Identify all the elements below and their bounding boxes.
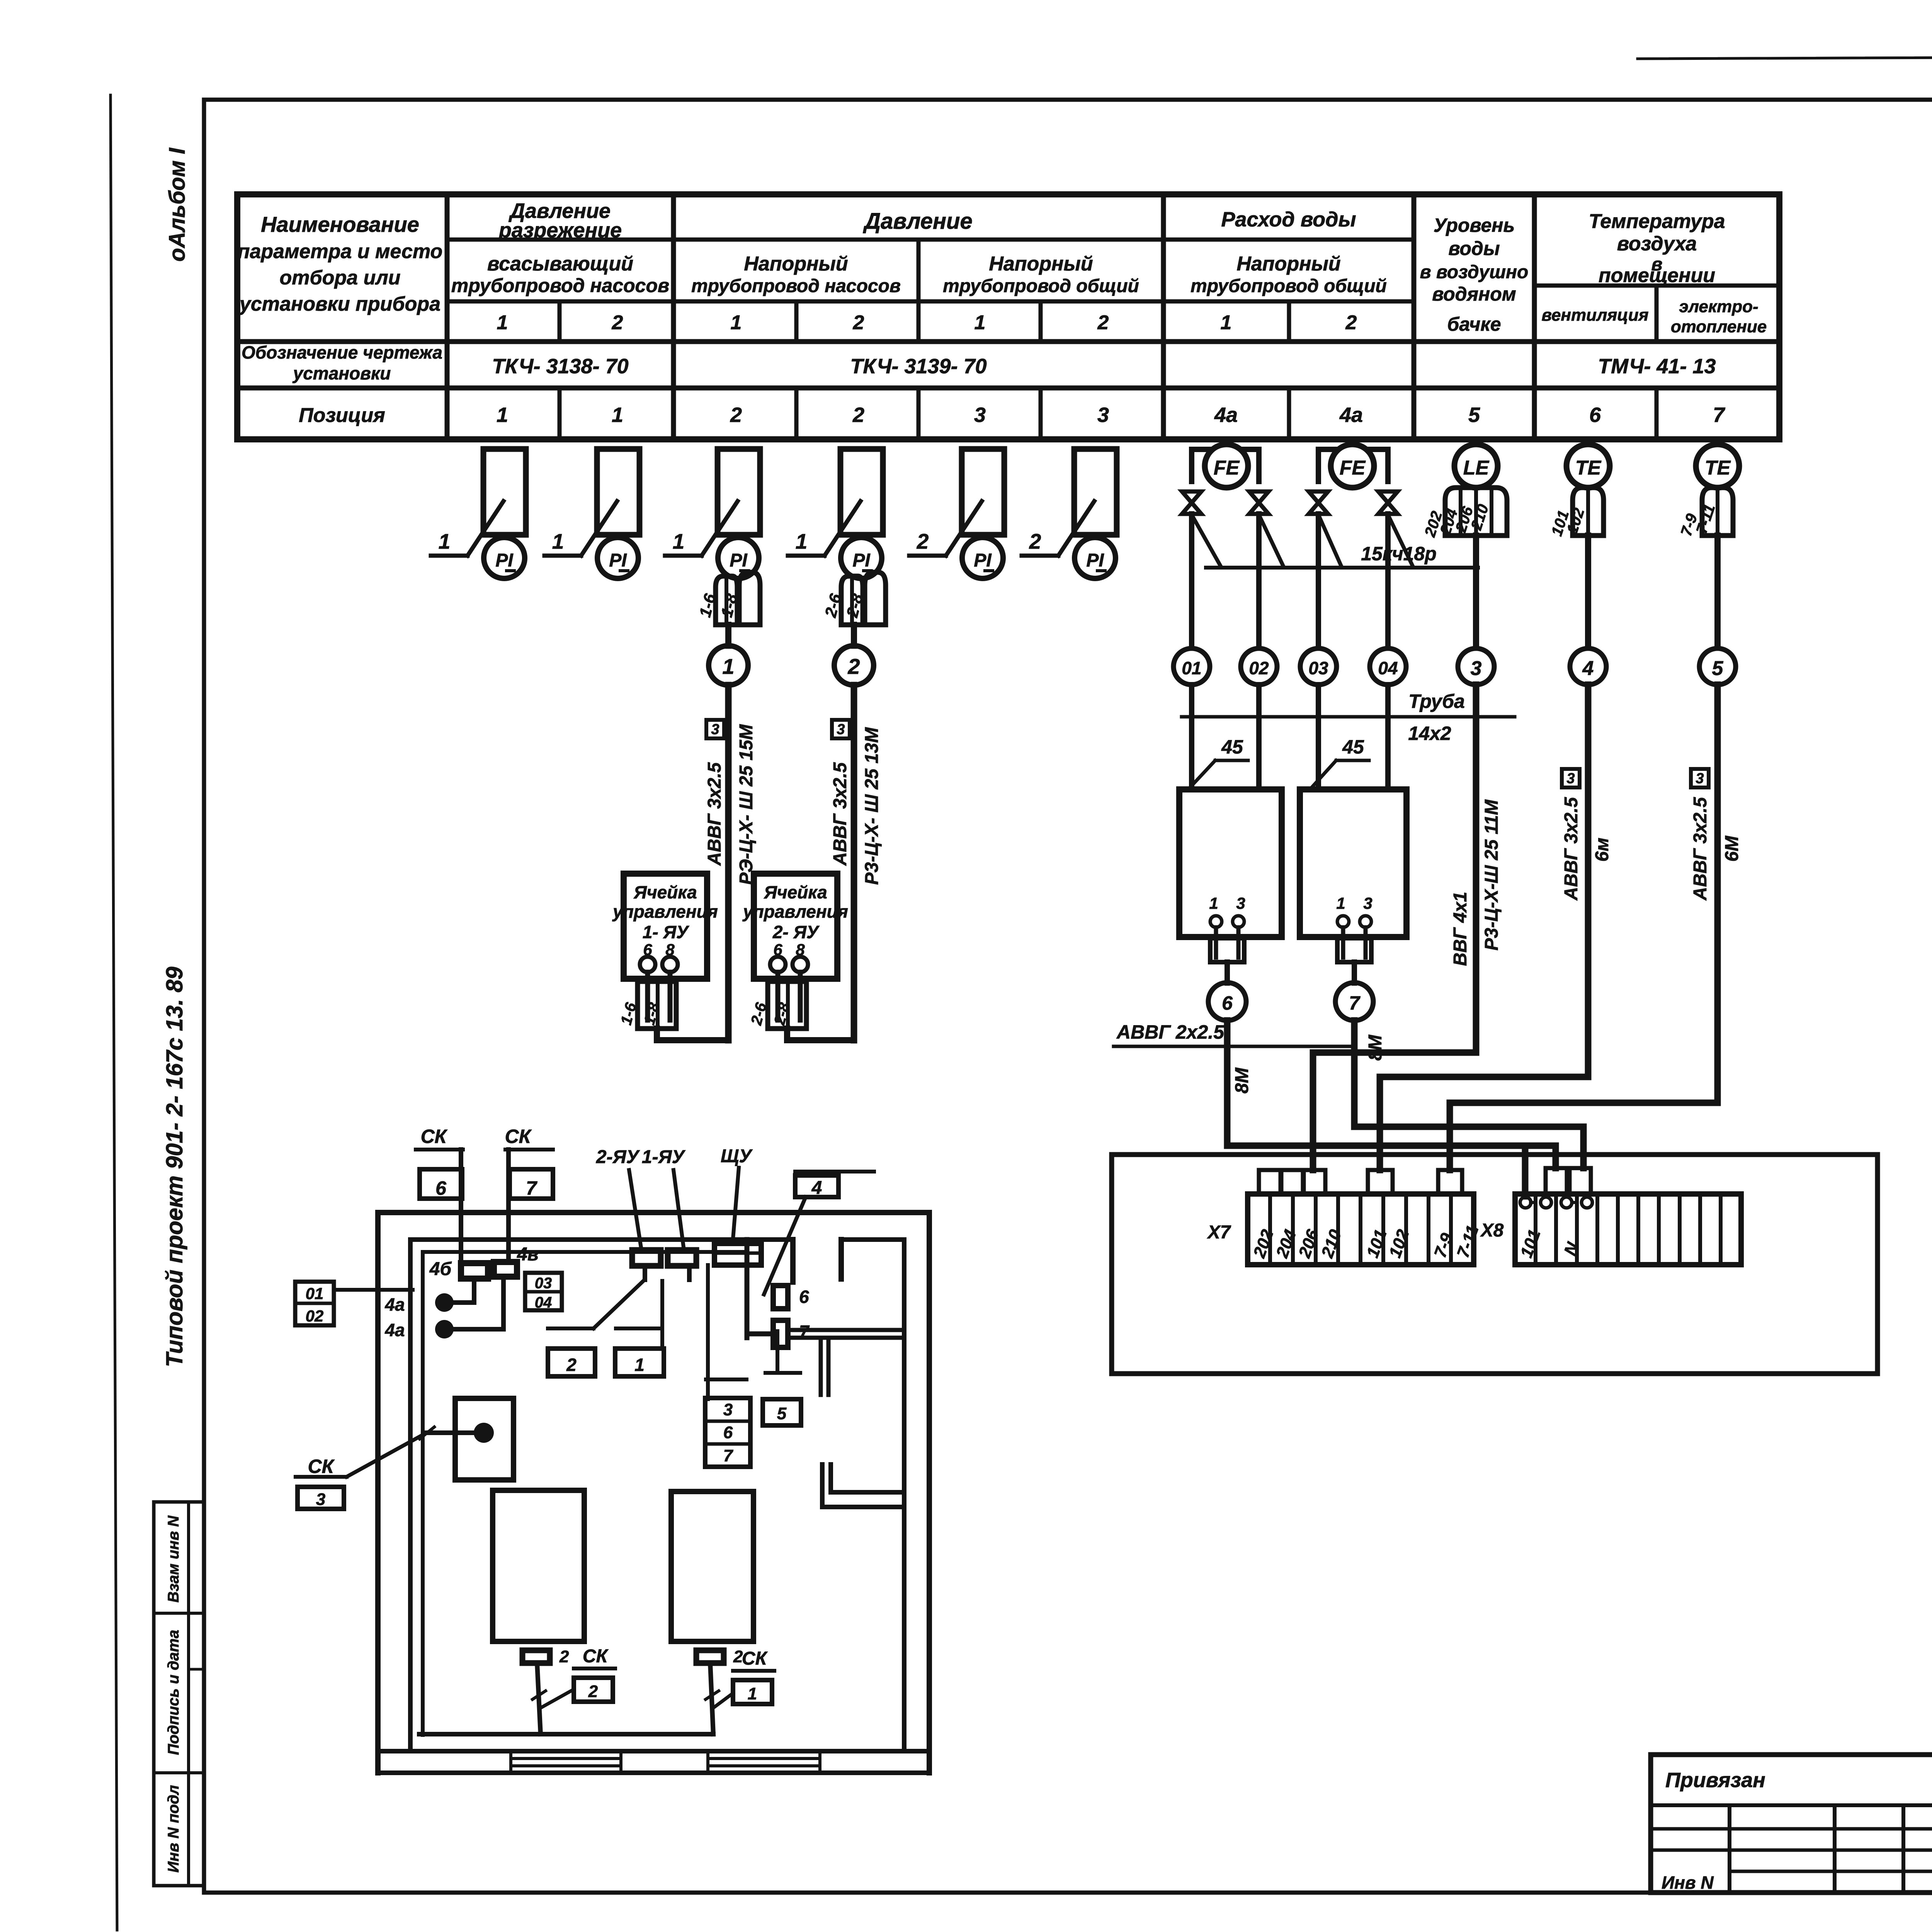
wire LE down to circle 3 [1473, 536, 1479, 648]
svg-text:Обозначение чертежа: Обозначение чертежа [241, 342, 442, 362]
margin strip [154, 1502, 204, 1886]
svg-text:2: 2 [559, 1647, 569, 1666]
niche walls bottom right [822, 1464, 904, 1507]
svg-text:X8: X8 [1480, 1220, 1504, 1241]
instrument rect pos 1 [597, 449, 639, 535]
leader line [909, 554, 946, 558]
svg-text:ТКЧ- 3139- 70: ТКЧ- 3139- 70 [850, 355, 986, 378]
svg-text:1: 1 [1209, 894, 1218, 912]
wire from LE riser [1313, 685, 1476, 1170]
valve 15kch18r [1309, 492, 1328, 514]
wire from TE1 riser [1380, 685, 1588, 1170]
svg-text:1: 1 [634, 1355, 645, 1375]
svg-text:02: 02 [306, 1307, 324, 1325]
svg-text:4а: 4а [1339, 403, 1363, 427]
impulse pipe [1189, 685, 1194, 789]
svg-text:2- ЯУ: 2- ЯУ [772, 922, 820, 942]
parameter table [237, 194, 1779, 439]
svg-text:45: 45 [1221, 736, 1243, 758]
valve 15kch18r [1249, 492, 1269, 514]
svg-text:Ячейка: Ячейка [764, 882, 827, 902]
terminal circles [770, 957, 786, 972]
svg-text:установки: установки [293, 363, 391, 383]
svg-text:3: 3 [1471, 657, 1482, 680]
junction circle 04 [1370, 648, 1406, 685]
circle pos 2 [834, 646, 874, 685]
svg-text:PI: PI [495, 550, 514, 571]
connector под PI 1 [716, 576, 737, 625]
svg-text:6: 6 [1222, 992, 1233, 1014]
svg-text:4б: 4б [429, 1259, 452, 1279]
junction circle 5 [1699, 648, 1736, 685]
svg-text:1- ЯУ: 1- ЯУ [643, 922, 690, 942]
svg-text:7: 7 [723, 1446, 734, 1465]
svg-text:7: 7 [1349, 992, 1361, 1014]
boxes 3 6 7 [705, 1398, 750, 1467]
wire to circle 1 [725, 625, 731, 646]
svg-text:03: 03 [1308, 658, 1328, 678]
manometer PI [484, 537, 525, 578]
svg-text:1: 1 [748, 1684, 757, 1703]
plan inner wall faces [410, 1237, 793, 1242]
svg-text:трубопровод насосов: трубопровод насосов [691, 276, 901, 296]
pump1 sensor [522, 1650, 550, 1663]
impulse pipe [1316, 685, 1321, 789]
svg-text:Температура: Температура [1588, 210, 1725, 233]
terminal strip X7 [1248, 1194, 1474, 1265]
junction circle 02 [1241, 648, 1277, 685]
svg-text:управления: управления [612, 901, 718, 922]
valve 15kch18r [1182, 492, 1201, 514]
svg-text:Взам инв N: Взам инв N [165, 1515, 182, 1602]
svg-text:2: 2 [1345, 311, 1357, 334]
svg-text:всасывающий: всасывающий [487, 253, 633, 275]
svg-text:2-ЯУ: 2-ЯУ [596, 1147, 640, 1167]
junction circle 3 [1458, 648, 1494, 685]
svg-text:4: 4 [811, 1178, 822, 1198]
manometer PI [841, 537, 882, 578]
svg-text:2: 2 [588, 1682, 598, 1701]
svg-text:СК: СК [308, 1456, 335, 1477]
box 5 [763, 1399, 801, 1425]
top wall door jambs [790, 1240, 796, 1282]
svg-text:PI: PI [1086, 550, 1104, 571]
manometer PI [962, 537, 1003, 578]
svg-text:1: 1 [552, 529, 564, 553]
svg-text:X7: X7 [1207, 1222, 1231, 1243]
box 1-ЯУ on wall [668, 1250, 696, 1266]
wire to circle 2 [851, 625, 857, 646]
svg-text:1: 1 [497, 311, 508, 334]
manometer PI [718, 537, 759, 578]
svg-text:6М: 6М [1722, 835, 1742, 862]
svg-text:управления: управления [742, 901, 848, 922]
terminal circles [640, 957, 655, 972]
svg-text:Труба: Труба [1408, 690, 1465, 712]
svg-text:PI: PI [609, 550, 627, 571]
wire from TE2 riser [1450, 685, 1718, 1170]
svg-text:3: 3 [974, 403, 986, 427]
X8 connector boxes [1546, 1168, 1567, 1194]
svg-text:Инв N: Инв N [1662, 1872, 1714, 1893]
junction circle 03 [1300, 648, 1337, 685]
circle 6 [1208, 983, 1246, 1020]
box 4 [795, 1175, 838, 1197]
svg-text:45: 45 [1342, 736, 1364, 758]
svg-text:5: 5 [1712, 657, 1724, 680]
svg-text:электро-: электро- [1679, 297, 1758, 316]
svg-text:СК: СК [421, 1126, 448, 1147]
svg-text:Позиция: Позиция [299, 404, 385, 427]
box 2-ЯУ on wall [632, 1250, 661, 1266]
svg-text:1: 1 [439, 529, 451, 553]
svg-text:6: 6 [799, 1287, 809, 1307]
svg-text:1: 1 [1336, 894, 1345, 912]
box ЩУ [714, 1243, 761, 1265]
дифманометр [1179, 789, 1282, 937]
svg-text:PI: PI [730, 550, 748, 571]
svg-text:Типовой проект 901- 2- 16: Типовой проект 901- 2- 167с 13. 89 [162, 966, 187, 1367]
connector под PI 2 [841, 576, 863, 625]
svg-text:1: 1 [673, 529, 685, 553]
instrument rect pos 1 [483, 449, 526, 535]
svg-text:Р3-Ц-Х- Ш 25 13М: Р3-Ц-Х- Ш 25 13М [862, 727, 882, 885]
circle pos 1 [709, 646, 748, 685]
pump2 sensor [696, 1650, 724, 1663]
interior partition right room [745, 1240, 750, 1338]
svg-text:3: 3 [1363, 894, 1372, 912]
cable wire down [851, 685, 857, 1040]
valve 15kch18r [1378, 492, 1398, 514]
svg-text:2: 2 [853, 311, 864, 334]
wire from circle 7 [1354, 1020, 1583, 1168]
control cell 1- ЯУ [624, 874, 707, 979]
device 6 [773, 1286, 788, 1309]
svg-text:ЩУ: ЩУ [721, 1146, 753, 1167]
cabinet with dot [455, 1398, 514, 1480]
svg-text:1: 1 [975, 311, 986, 334]
manometer PI [1075, 537, 1116, 578]
svg-text:Инв N подл: Инв N подл [165, 1785, 182, 1873]
svg-text:2: 2 [917, 529, 929, 553]
svg-text:6: 6 [435, 1177, 447, 1199]
svg-text:СК: СК [583, 1646, 609, 1667]
svg-text:оАльбом I: оАльбом I [165, 147, 190, 262]
LE connector 4 cells [1445, 488, 1507, 536]
svg-text:1: 1 [722, 654, 734, 679]
device 4б [461, 1263, 488, 1279]
cable marker box 3 [706, 720, 724, 738]
svg-text:АВВГ 2х2.5: АВВГ 2х2.5 [1116, 1021, 1225, 1043]
svg-text:2: 2 [730, 403, 742, 427]
junction circle 01 [1173, 648, 1210, 685]
svg-text:Напорный: Напорный [744, 253, 848, 275]
top thin line [1638, 54, 1932, 59]
svg-text:TE: TE [1575, 457, 1602, 479]
svg-text:бачке: бачке [1447, 313, 1501, 335]
svg-text:РЭ-Ц-Х- Ш 25 15М: РЭ-Ц-Х- Ш 25 15М [736, 724, 757, 885]
manometer PI [597, 537, 638, 578]
svg-text:параметра и место: параметра и место [238, 240, 443, 263]
box 1 [616, 1327, 660, 1330]
дифманометр [1300, 789, 1406, 937]
svg-text:3: 3 [1236, 894, 1245, 912]
svg-text:Наименование: Наименование [261, 212, 419, 236]
svg-text:3: 3 [711, 721, 719, 738]
svg-text:трубопровод общий: трубопровод общий [1190, 276, 1387, 296]
junction circle 4 [1570, 648, 1606, 685]
impulse pipe [1256, 685, 1262, 789]
svg-text:3: 3 [837, 721, 845, 738]
pipe down [1189, 514, 1194, 648]
svg-text:4: 4 [1582, 657, 1594, 680]
svg-text:14х2: 14х2 [1408, 723, 1451, 744]
box 01 02 [295, 1282, 334, 1325]
svg-text:1: 1 [796, 529, 808, 553]
svg-text:СК: СК [505, 1126, 532, 1147]
cable marker box 3 [832, 720, 850, 738]
leader 45 [1336, 759, 1369, 762]
level element LE [1454, 444, 1498, 488]
svg-text:02: 02 [1249, 658, 1269, 678]
svg-text:отбора или: отбора или [280, 267, 401, 289]
pump 1 [493, 1490, 584, 1641]
svg-text:LE: LE [1463, 457, 1490, 479]
svg-text:TE: TE [1705, 457, 1731, 479]
svg-text:7: 7 [799, 1321, 810, 1342]
X7 connector boxes [1259, 1170, 1281, 1194]
svg-text:4а: 4а [384, 1294, 405, 1315]
svg-text:Напорный: Напорный [989, 253, 1093, 275]
circle 7 [1335, 983, 1373, 1020]
svg-text:15кч18р: 15кч18р [1361, 543, 1437, 565]
svg-text:ТМЧ- 41- 13: ТМЧ- 41- 13 [1598, 355, 1716, 378]
svg-text:ВВГ 4х1: ВВГ 4х1 [1450, 892, 1471, 966]
svg-text:01: 01 [306, 1284, 324, 1303]
svg-text:2: 2 [1029, 529, 1041, 553]
svg-text:PI: PI [974, 550, 992, 571]
svg-text:3: 3 [316, 1490, 325, 1509]
device 4в [494, 1262, 517, 1277]
terminal strip X8 [1515, 1194, 1741, 1265]
svg-text:FE: FE [1340, 457, 1366, 479]
connector box [638, 981, 676, 1029]
svg-text:6м: 6м [1592, 838, 1612, 862]
svg-text:2: 2 [847, 654, 860, 679]
svg-text:03: 03 [535, 1275, 552, 1292]
valve leader line [1206, 566, 1478, 570]
svg-text:3: 3 [1566, 770, 1575, 787]
svg-text:водяном: водяном [1432, 283, 1516, 305]
device 7 [773, 1320, 788, 1347]
svg-text:PI: PI [852, 550, 871, 571]
svg-text:01: 01 [1182, 658, 1201, 678]
svg-text:АВВГ 3х2.5: АВВГ 3х2.5 [704, 762, 725, 866]
bottom interior cable line [419, 1732, 713, 1736]
temp element TE1 [1566, 444, 1610, 488]
svg-text:ТКЧ- 3138- 70: ТКЧ- 3138- 70 [492, 355, 628, 378]
instrument rect pos 1 [840, 449, 883, 535]
wire cell2 to riser [787, 1029, 854, 1040]
connector box [768, 981, 806, 1029]
svg-text:04: 04 [1378, 658, 1398, 678]
instrument rect pos 1 [718, 449, 760, 535]
flow element FE2 [1331, 444, 1374, 488]
svg-text:6: 6 [723, 1423, 733, 1442]
svg-text:5: 5 [777, 1404, 787, 1423]
svg-text:7: 7 [526, 1177, 537, 1199]
svg-text:АВВГ 3х2.5: АВВГ 3х2.5 [1561, 797, 1582, 901]
svg-text:1: 1 [612, 403, 623, 427]
page edge line left [111, 95, 117, 1930]
svg-text:вентиляция: вентиляция [1541, 306, 1648, 325]
control cell 2- ЯУ [754, 874, 837, 979]
svg-text:помещении: помещении [1599, 264, 1715, 287]
svg-text:FE: FE [1214, 457, 1240, 479]
svg-text:3: 3 [1097, 403, 1109, 427]
plan outer walls [378, 1210, 929, 1215]
wire cell1 to riser [657, 1029, 728, 1040]
leader line [431, 554, 468, 558]
label АВВГ3х2.5 TE1 [1562, 769, 1580, 787]
leader line [788, 554, 825, 558]
svg-text:4а: 4а [384, 1320, 405, 1340]
svg-text:АВВГ 3х2.5: АВВГ 3х2.5 [1690, 797, 1711, 901]
svg-text:отопление: отопление [1671, 317, 1767, 336]
svg-text:4в: 4в [517, 1244, 539, 1265]
svg-text:1: 1 [497, 403, 508, 427]
wire from circle 6 [1227, 1020, 1525, 1196]
svg-text:Напорный: Напорный [1236, 253, 1340, 275]
svg-text:8М: 8М [1365, 1034, 1386, 1061]
control cabinet [1112, 1155, 1878, 1374]
leader line [1022, 554, 1058, 558]
instrument rect pos 2 [962, 449, 1004, 535]
bottom door thresholds [511, 1757, 621, 1760]
svg-text:2: 2 [612, 311, 623, 334]
title extension privyazan [1651, 1755, 1932, 1893]
svg-text:Расход воды: Расход воды [1221, 208, 1356, 231]
cable wire down [725, 685, 732, 1040]
svg-text:Давление: Давление [862, 209, 972, 234]
impulse tube along walls [421, 1252, 425, 1735]
svg-text:2: 2 [566, 1355, 577, 1375]
svg-text:АВВГ 3х2.5: АВВГ 3х2.5 [830, 762, 850, 866]
svg-text:Р3-Ц-Х-Ш 25 11М: Р3-Ц-Х-Ш 25 11М [1481, 799, 1502, 951]
flow element FE1 [1205, 444, 1248, 488]
svg-text:3: 3 [1696, 770, 1704, 787]
svg-text:трубопровод общий: трубопровод общий [943, 276, 1139, 296]
svg-text:1: 1 [731, 311, 742, 334]
box 03 04 [525, 1273, 562, 1310]
leader line [544, 554, 581, 558]
svg-text:Уровень: Уровень [1434, 214, 1515, 236]
svg-text:разрежение: разрежение [498, 219, 622, 242]
труба 14х2 [1182, 715, 1515, 719]
svg-text:1-ЯУ: 1-ЯУ [642, 1147, 686, 1167]
label АВВГ3х2.5 TE2 [1691, 769, 1709, 787]
svg-text:8М: 8М [1232, 1067, 1252, 1094]
svg-text:воды: воды [1448, 238, 1500, 259]
leader 45 [1215, 759, 1248, 762]
svg-text:04: 04 [535, 1294, 552, 1311]
svg-text:воздуха: воздуха [1617, 233, 1697, 255]
leader line [665, 554, 702, 558]
svg-text:Привязан: Привязан [1665, 1769, 1765, 1792]
svg-text:установки прибора: установки прибора [238, 293, 440, 315]
svg-text:4а: 4а [1214, 403, 1238, 427]
svg-text:5: 5 [1468, 403, 1480, 427]
svg-text:2: 2 [1097, 311, 1109, 334]
instrument rect pos 2 [1074, 449, 1117, 535]
impulse pipe [1385, 685, 1391, 789]
svg-text:7: 7 [1713, 403, 1726, 427]
svg-text:Ячейка: Ячейка [633, 882, 697, 902]
svg-text:3: 3 [723, 1400, 733, 1419]
svg-text:СК: СК [742, 1648, 768, 1669]
svg-text:Подпись и дата: Подпись и дата [165, 1630, 182, 1755]
temp element TE2 [1696, 444, 1739, 488]
svg-text:трубопровод насосов: трубопровод насосов [451, 275, 669, 296]
svg-text:в воздушно: в воздушно [1420, 262, 1529, 282]
box 2 [548, 1327, 594, 1330]
svg-text:1: 1 [1221, 311, 1232, 334]
pump 2 [671, 1492, 753, 1641]
svg-text:2: 2 [852, 403, 864, 427]
svg-text:6: 6 [1589, 403, 1601, 427]
